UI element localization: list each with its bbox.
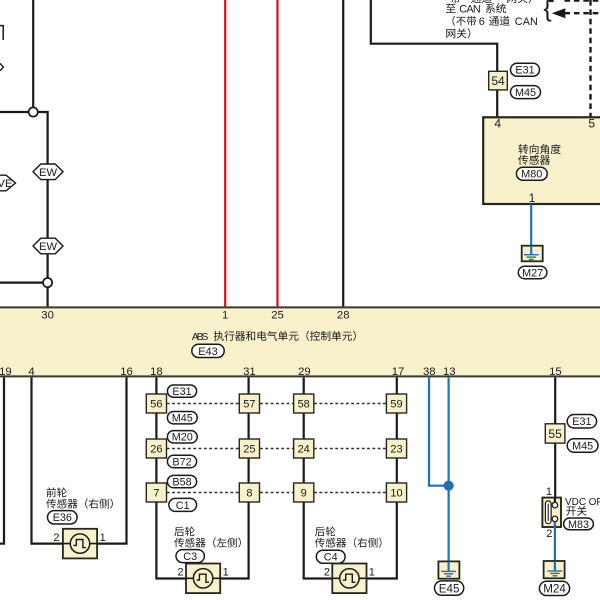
text: 后轮 传感器（右侧）	[315, 526, 335, 536]
node: junction J2	[43, 278, 52, 287]
wire from top through connector 54 to M80 pin 4	[371, 0, 497, 117]
wire pin 4 to front right sensor	[32, 377, 65, 543]
svg-text:M80: M80	[521, 169, 542, 181]
wire color tag EW (upper)	[33, 164, 63, 180]
connector box 9	[294, 483, 314, 502]
connector box 54	[489, 71, 508, 90]
text: （不带 6 通道 CAN	[452, 16, 476, 26]
svg-text:E31: E31	[515, 65, 534, 77]
VDC OFF switch box M83	[542, 498, 561, 527]
wire (blue) switch to ground M24	[554, 522, 556, 562]
svg-text:5: 5	[588, 116, 595, 130]
svg-text:17: 17	[392, 366, 405, 378]
connector M45 oval	[167, 412, 197, 424]
svg-text:E36: E36	[53, 512, 72, 524]
connector E43 oval	[192, 344, 224, 357]
svg-text:25: 25	[271, 309, 284, 321]
connector M80 oval	[516, 167, 547, 180]
svg-text:10: 10	[390, 488, 402, 500]
connector box 23	[386, 439, 406, 458]
wire pin 18 to rear left sensor	[156, 377, 187, 578]
svg-text:M27: M27	[522, 267, 543, 279]
wire (red) to pin 1	[224, 0, 226, 307]
clipped upper CAN arrow and dashes fragment	[565, 0, 600, 2]
svg-text:7: 7	[153, 488, 159, 500]
wire: vertical drop from top to junction	[32, 0, 34, 112]
svg-text:B58: B58	[172, 477, 191, 489]
connector B58 oval	[167, 475, 196, 487]
clipped text line (top edge)	[450, 0, 460, 3]
svg-text:C1: C1	[176, 500, 190, 512]
text: 转向角度 传感器	[518, 144, 560, 154]
wire: down into ABS unit pin 30	[46, 283, 48, 307]
svg-text:M83: M83	[568, 519, 589, 531]
svg-text:M45: M45	[572, 440, 593, 452]
left edge glyph fragment 2	[0, 63, 3, 70]
svg-text:2: 2	[324, 566, 330, 578]
svg-text:28: 28	[337, 309, 350, 321]
svg-text:C4: C4	[324, 552, 338, 564]
connector box 26	[146, 439, 166, 458]
wire pin 15 to switch	[554, 377, 556, 505]
switch terminal circles	[552, 502, 558, 508]
wire pin 17 to rear right sensor	[366, 377, 397, 578]
svg-text:OFF: OFF	[589, 497, 600, 508]
svg-text:E31: E31	[572, 416, 591, 428]
left edge glyph fragment 1	[0, 26, 3, 40]
wire to pin 28	[342, 0, 344, 307]
svg-text:1: 1	[222, 309, 228, 321]
steering angle sensor box M80	[483, 117, 600, 204]
wire color tag VE (clipped at left edge)	[0, 175, 16, 191]
dashed harness continuation	[167, 448, 240, 450]
ABS actuator/electric unit (control unit) band E43	[0, 306, 600, 377]
connector box 55	[545, 424, 565, 443]
ground M24	[544, 561, 565, 578]
connector box 24	[294, 439, 314, 458]
svg-text:E31: E31	[172, 386, 191, 398]
connector box 8	[239, 483, 259, 502]
svg-text:C3: C3	[183, 551, 197, 563]
svg-text:VE: VE	[0, 178, 12, 190]
connector C1 oval	[169, 498, 197, 511]
rear right wheel sensor	[332, 564, 366, 594]
svg-text:{: {	[543, 0, 551, 22]
svg-text:58: 58	[298, 399, 310, 411]
svg-text:B72: B72	[172, 456, 191, 468]
svg-text:M45: M45	[515, 87, 536, 99]
svg-text:ABS: ABS	[192, 332, 209, 343]
svg-text:16: 16	[120, 366, 133, 378]
svg-text:24: 24	[298, 444, 310, 456]
svg-text:26: 26	[150, 444, 162, 456]
svg-text:29: 29	[298, 366, 311, 378]
wire (blue) M80 pin1 to ground	[530, 204, 532, 247]
svg-text:13: 13	[443, 366, 456, 378]
svg-text:1: 1	[223, 566, 229, 578]
svg-text:1: 1	[546, 486, 552, 498]
connector E31 oval	[167, 385, 196, 397]
svg-text:59: 59	[390, 399, 402, 411]
connector box 58	[294, 394, 314, 413]
connector M24 oval	[539, 581, 569, 595]
wire pin 29 to rear right sensor	[304, 377, 334, 578]
front right wheel sensor	[63, 529, 97, 559]
svg-text:E43: E43	[198, 346, 218, 358]
svg-text:6: 6	[479, 16, 485, 28]
wire pin 16 to front right sensor	[96, 377, 127, 543]
svg-text:EW: EW	[39, 241, 57, 253]
wire (red) to pin 25	[276, 0, 278, 307]
svg-text:38: 38	[423, 366, 436, 378]
wire (blue) pin 38	[429, 377, 449, 485]
text: 前轮 传感器（右侧）	[47, 487, 67, 497]
wire: horizontal branch at junction 2	[0, 282, 48, 284]
svg-text:8: 8	[246, 488, 252, 500]
svg-text:2: 2	[177, 566, 183, 578]
svg-text:9: 9	[301, 488, 307, 500]
svg-text:25: 25	[243, 444, 255, 456]
svg-text:M20: M20	[172, 432, 193, 444]
connector E36 oval	[48, 511, 78, 524]
svg-text:54: 54	[491, 74, 505, 88]
connector M45 oval	[567, 439, 598, 452]
svg-text:15: 15	[549, 366, 562, 378]
svg-text:23: 23	[390, 444, 402, 456]
svg-text:30: 30	[41, 309, 54, 321]
svg-text:CAN: CAN	[459, 3, 481, 15]
connector C3 oval	[176, 550, 204, 563]
connector E31 oval (top)	[511, 63, 540, 76]
svg-text:2: 2	[53, 532, 59, 544]
ground E45	[438, 561, 459, 578]
dashed harness continuation	[167, 403, 240, 405]
wire pin 19 to front-left sensor (off frame)	[0, 377, 4, 543]
connector box 56	[146, 394, 166, 413]
svg-text:2: 2	[546, 528, 552, 540]
svg-text:1: 1	[529, 191, 536, 205]
svg-text:19: 19	[0, 366, 12, 378]
svg-text:56: 56	[150, 399, 162, 411]
connector M45 oval (top)	[511, 86, 541, 99]
connector box 59	[386, 394, 406, 413]
connector B72 oval	[167, 455, 196, 467]
connector E31 oval	[567, 415, 596, 429]
svg-text:55: 55	[548, 427, 562, 441]
dashed CAN line with left arrow	[565, 12, 600, 14]
connector box 10	[386, 483, 406, 502]
wire (blue) pin 13 to ground E45	[448, 377, 450, 562]
text: 后轮 传感器（左侧）	[174, 526, 194, 536]
svg-text:1: 1	[369, 566, 375, 578]
connector E45 oval	[435, 581, 464, 595]
svg-text:1: 1	[100, 532, 106, 544]
node: blue junction	[444, 481, 454, 491]
connector box 25	[239, 439, 259, 458]
svg-text:57: 57	[243, 399, 255, 411]
text: 至 CAN 系统	[446, 4, 456, 13]
svg-text:CAN: CAN	[515, 16, 538, 28]
wire pin 31 to rear left sensor	[220, 377, 249, 578]
ground M27	[522, 246, 543, 262]
svg-text:EW: EW	[39, 167, 57, 179]
svg-text:31: 31	[243, 366, 256, 378]
dashed harness continuation	[167, 492, 240, 494]
text: 网关）	[446, 28, 470, 38]
svg-text:4: 4	[28, 366, 34, 378]
svg-text:E45: E45	[439, 582, 460, 595]
node: junction J1	[29, 107, 38, 116]
connector box 57	[239, 394, 259, 413]
connector C4 oval	[316, 550, 345, 563]
svg-text:M45: M45	[172, 413, 193, 425]
svg-text:18: 18	[150, 366, 163, 378]
wire: horizontal feed with drop to pin 30	[0, 112, 48, 283]
wire color tag EW (lower)	[33, 238, 63, 254]
dashed CAN trunk line into M80 pin 5	[589, 0, 591, 117]
svg-text:4: 4	[494, 116, 501, 130]
svg-text:M24: M24	[543, 583, 566, 596]
connector M83 oval	[564, 518, 594, 530]
connector M27 oval	[518, 266, 547, 278]
rear left wheel sensor	[186, 564, 220, 594]
connector box 7	[146, 483, 166, 502]
connector M20 oval	[167, 431, 197, 443]
